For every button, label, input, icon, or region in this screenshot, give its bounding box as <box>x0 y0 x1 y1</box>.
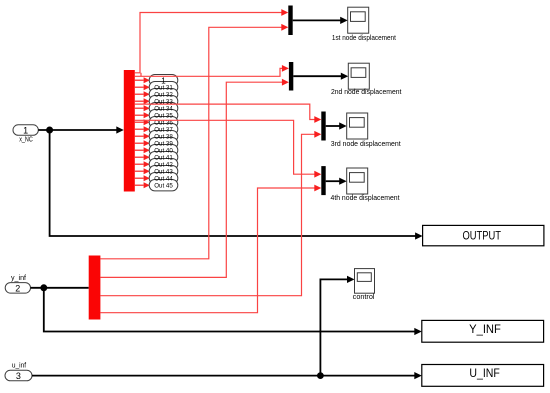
outport block Y_INF <box>422 320 544 342</box>
scope 3rd node displacement <box>331 113 401 148</box>
outport Out 34 oval <box>149 103 178 114</box>
svg-text:Out 35: Out 35 <box>154 112 173 119</box>
wire H1 demux D1 row1 to mux M2 <box>135 65 289 76</box>
scope 2nd node displacement <box>331 63 402 96</box>
svg-text:Out 31: Out 31 <box>154 84 173 91</box>
outport Out 41 oval <box>149 152 178 163</box>
outport Out 33 oval <box>149 96 178 107</box>
outport block U_INF <box>422 365 544 387</box>
outport Out 35 oval <box>149 110 178 121</box>
wire demux D1 row1 to mux M1 <box>135 9 288 73</box>
svg-text:2: 2 <box>15 283 20 293</box>
svg-text:2nd node displacement: 2nd node displacement <box>331 87 402 96</box>
wire branch to control scope <box>320 276 354 376</box>
wire demux D1 output 8 to Out 37 <box>135 126 150 132</box>
svg-text:Out 40: Out 40 <box>154 147 173 154</box>
mux M2 <box>289 62 293 91</box>
svg-text:control: control <box>353 292 375 301</box>
wire demux D1 output 14 to Out 43 <box>135 168 150 174</box>
svg-text:u_inf: u_inf <box>12 362 26 369</box>
inport 3 u_inf <box>5 362 32 381</box>
wire demux D1 output 3 to Out 32 <box>135 91 150 97</box>
wire demux D1 output 4 to Out 33 <box>135 98 150 104</box>
wire demux D1 output 2 to Out 31 <box>135 84 150 90</box>
wire port2 branch to Y_INF <box>44 288 422 335</box>
demux D2 <box>89 256 101 320</box>
outport oval labels <box>154 76 173 189</box>
inport 2 y_inf <box>5 275 30 293</box>
svg-text:Y_INF: Y_INF <box>469 324 501 336</box>
wire demux D2 row1 to mux M1 <box>100 24 288 259</box>
wire demux D1 output 10 to Out 39 <box>135 140 150 146</box>
outport Out 39 oval <box>149 138 178 149</box>
wire demux D2 row2 to mux M2 <box>100 79 289 278</box>
svg-text:x_NC: x_NC <box>19 136 33 143</box>
scope 4th node displacement <box>331 168 400 202</box>
wire port1 to demux D1 <box>38 126 124 133</box>
node junction port1 <box>46 127 53 134</box>
node junction port2 <box>40 284 47 291</box>
svg-text:Out 43: Out 43 <box>154 168 173 175</box>
svg-text:3rd node displacement: 3rd node displacement <box>331 139 401 148</box>
demux D1 <box>124 70 135 192</box>
wire port1 branch to OUTPUT <box>50 130 423 240</box>
wire mux M3 to scope 3 <box>326 122 347 129</box>
wire H2 demux D1 row5 to mux M3 <box>135 104 321 123</box>
wire mux M1 to scope 1 <box>293 17 348 24</box>
outport Out 38 oval <box>149 131 178 142</box>
wire demux D1 output 7 to Out 36 <box>135 119 150 125</box>
scope control <box>353 269 375 302</box>
svg-text:Out 34: Out 34 <box>154 105 173 112</box>
outport block OUTPUT <box>423 225 544 245</box>
wire demux D1 output 12 to Out 41 <box>135 154 150 160</box>
wire demux D1 output 9 to Out 38 <box>135 133 150 139</box>
svg-text:Out 45: Out 45 <box>154 182 173 189</box>
outport Out 42 oval <box>149 159 178 170</box>
svg-text:4th node displacement: 4th node displacement <box>331 193 400 202</box>
svg-text:Out 42: Out 42 <box>154 161 173 168</box>
svg-text:Out 38: Out 38 <box>154 133 173 140</box>
wire demux D1 output 11 to Out 40 <box>135 147 150 153</box>
wire demux D2 row3 to mux M3 <box>100 131 321 296</box>
mux M1 <box>288 6 292 36</box>
svg-text:Out 44: Out 44 <box>154 175 173 182</box>
scope 1st node displacement <box>332 7 396 42</box>
svg-text:3: 3 <box>16 371 21 381</box>
outport Out 40 oval <box>149 145 178 156</box>
svg-text:1: 1 <box>23 126 28 136</box>
outport Out 37 oval <box>149 124 178 135</box>
svg-text:Out 41: Out 41 <box>154 154 173 161</box>
outport Out 31 oval <box>149 82 178 93</box>
outport Out 44 oval <box>149 173 178 184</box>
outport Out 43 oval <box>149 166 178 177</box>
mux M3 <box>321 112 325 141</box>
outport Out 36 oval <box>149 117 178 128</box>
wire port2 to demux D2 <box>31 287 89 289</box>
svg-text:OUTPUT: OUTPUT <box>462 230 501 242</box>
wire H3 demux D1 row7 to mux M4 <box>135 120 321 177</box>
wire demux D1 output 15 to Out 44 <box>135 175 150 181</box>
node junction u_inf <box>317 372 324 379</box>
mux M4 <box>321 166 325 195</box>
wire mux M2 to scope 2 <box>293 73 348 80</box>
svg-text:y_inf: y_inf <box>11 275 26 282</box>
outport 1 oval <box>149 75 178 86</box>
svg-text:U_INF: U_INF <box>469 368 500 380</box>
outport Out 45 oval <box>149 180 178 191</box>
wire demux D2 row4 to mux M4 <box>100 185 321 313</box>
svg-text:Out 37: Out 37 <box>154 126 173 133</box>
wire mux M4 to scope 4 <box>326 178 347 185</box>
wire demux D1 output 16 to Out 45 <box>135 182 150 188</box>
wire demux D1 output 5 to Out 34 <box>135 105 150 111</box>
svg-text:1st node displacement: 1st node displacement <box>332 33 396 42</box>
svg-text:Out 32: Out 32 <box>154 91 173 98</box>
wire port3 to U_INF <box>32 372 422 379</box>
wire demux D1 output 6 to Out 35 <box>135 112 150 118</box>
wire demux D1 output 1 to outport 1 <box>135 77 150 83</box>
inport 1 x_NC <box>13 125 38 144</box>
svg-text:Out 39: Out 39 <box>154 140 173 147</box>
wire demux D1 output 13 to Out 42 <box>135 161 150 167</box>
outport Out 32 oval <box>149 89 178 100</box>
